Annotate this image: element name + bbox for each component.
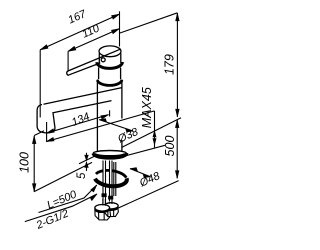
flange top ellipse	[93, 151, 126, 156]
svg-text:100: 100	[18, 152, 32, 173]
hose end extension line	[118, 181, 179, 209]
outlet axis extension	[46, 122, 48, 142]
dimension 167 line	[40, 14, 119, 50]
dimension 110 line	[68, 29, 119, 52]
flange top extension for 5	[79, 156, 94, 163]
cap top ellipse	[99, 46, 121, 57]
svg-text:5: 5	[76, 172, 88, 179]
tube stubs into fittings	[103, 199, 112, 206]
cap base band	[97, 62, 123, 68]
svg-text:500: 500	[163, 136, 177, 157]
cap wall left	[98, 54, 100, 63]
2-G1/2 leader	[25, 194, 97, 222]
dimension 500 line	[175, 120, 179, 179]
dimension 100 top extension	[34, 131, 44, 136]
body right edge upper	[121, 80, 123, 118]
hose fitting right	[104, 203, 118, 217]
lever rod bottom edge	[68, 63, 100, 75]
spout bottom edge	[53, 101, 111, 113]
flange thick base	[94, 153, 127, 157]
supply tube 2	[109, 161, 112, 203]
neck left	[98, 68, 100, 79]
tube ferrule marks	[102, 194, 107, 197]
lever pivot dot	[101, 58, 105, 62]
dimension O38 line	[99, 119, 133, 132]
counter bottom line	[124, 145, 165, 156]
dimension 134 tick	[109, 110, 111, 116]
dimension 5 lower arrow	[85, 162, 89, 171]
spout top edge	[44, 88, 122, 105]
body right edge lower	[121, 141, 123, 151]
counter surface line right segment	[122, 118, 181, 147]
MAX45 dimension line	[153, 111, 156, 148]
counter surface line left segment	[34, 162, 92, 191]
svg-text:179: 179	[162, 54, 176, 75]
dimension 179 line	[176, 13, 180, 117]
extension line left of 167	[39, 50, 41, 118]
hose fitting left	[95, 205, 111, 221]
lever rod top edge	[68, 49, 120, 71]
supply tube 1	[103, 161, 106, 205]
body left edge	[96, 80, 98, 151]
dimension O48 line	[130, 168, 151, 178]
dimension 100 line	[32, 136, 36, 192]
extension line right of 167/110	[119, 11, 121, 46]
L=500 leader	[39, 185, 97, 213]
svg-text:MAX45: MAX45	[140, 87, 154, 128]
lever rod end cap	[67, 71, 68, 75]
spout outlet outline	[37, 105, 55, 133]
leader from outlet axis to MAX45 top	[46, 111, 154, 142]
mounting bracket back arc	[96, 169, 127, 178]
extension line left of 110	[67, 51, 69, 70]
threaded rod	[114, 162, 116, 196]
extension line to 179 top	[120, 13, 177, 33]
dimension 5 upper arrow	[85, 153, 89, 161]
shoulder band	[97, 80, 122, 85]
neck right	[120, 68, 122, 79]
mounting bracket front arc	[94, 175, 127, 188]
dimension 134 line	[46, 115, 108, 134]
cap wall right	[120, 54, 122, 63]
